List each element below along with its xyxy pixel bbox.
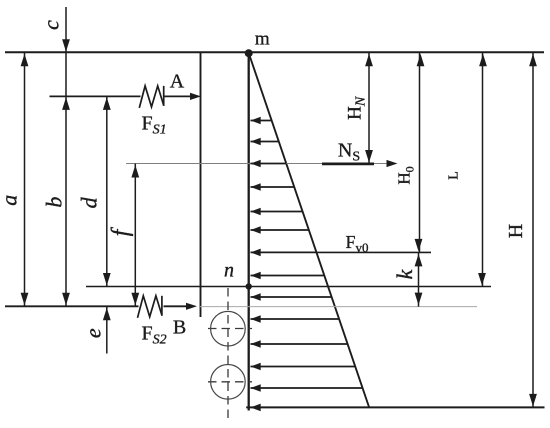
dimension H line xyxy=(529,52,537,407)
N_S label xyxy=(338,140,360,165)
anchor 1 cross dashed line xyxy=(208,328,252,330)
load arrow q6 xyxy=(251,226,309,234)
N_S force bar xyxy=(322,162,374,165)
node m label xyxy=(255,28,270,49)
dimension L line xyxy=(478,52,487,286)
svg-text:c: c xyxy=(39,20,64,30)
spring F_S1 symbol xyxy=(139,86,163,108)
load arrow q12 xyxy=(251,363,356,371)
dimension a line xyxy=(21,52,29,306)
label f xyxy=(108,226,134,236)
label c xyxy=(39,20,64,30)
label a xyxy=(0,195,22,206)
label F_S2 xyxy=(141,323,166,348)
label H_N xyxy=(345,96,369,120)
label b xyxy=(42,197,67,208)
label H xyxy=(505,224,527,238)
svg-text:H: H xyxy=(505,224,527,238)
N_S action line xyxy=(126,163,394,165)
svg-text:B: B xyxy=(173,317,186,339)
dimension d line xyxy=(103,96,111,286)
N_S arrow right xyxy=(387,160,398,167)
load arrow q1 xyxy=(251,117,272,125)
F_v0 line xyxy=(317,251,432,253)
dimension k line xyxy=(415,252,423,306)
load arrow q5 xyxy=(251,208,303,216)
pile vertical line m-n xyxy=(248,52,250,410)
load arrow q2 xyxy=(251,138,279,146)
dimension c line xyxy=(62,7,70,52)
anchor 1 circle xyxy=(211,311,246,346)
svg-text:A: A xyxy=(170,71,185,93)
node n label xyxy=(224,260,234,282)
label B xyxy=(173,317,186,339)
load arrow q13 xyxy=(251,384,363,392)
dimension e line xyxy=(103,306,111,353)
load arrow q11 xyxy=(251,340,348,348)
dimension b line xyxy=(62,52,70,306)
dimension H_N line xyxy=(365,52,373,163)
dimension H_0 line xyxy=(415,52,425,252)
label e xyxy=(81,328,106,338)
anchor 2 circle xyxy=(211,365,246,400)
svg-text:m: m xyxy=(255,28,270,49)
top ground line xyxy=(5,51,544,53)
anchor axis dashed line xyxy=(227,288,229,421)
label d xyxy=(77,196,102,208)
wall vertical line xyxy=(200,52,202,317)
svg-text:e: e xyxy=(81,328,106,338)
label k xyxy=(392,268,417,279)
load arrow q8 xyxy=(251,272,325,280)
node n dot xyxy=(246,283,252,289)
svg-text:a: a xyxy=(0,195,22,206)
load arrow q10 xyxy=(251,315,340,323)
svg-text:L: L xyxy=(447,171,462,180)
svg-text:d: d xyxy=(77,196,102,208)
load arrow q9 xyxy=(251,293,332,301)
bottom ground line with load arrow xyxy=(246,404,544,412)
label F_S1 xyxy=(141,113,166,138)
spring F_S2 symbol xyxy=(138,296,162,318)
F_S2 spring line xyxy=(5,305,189,307)
n level line xyxy=(86,286,491,288)
node m dot xyxy=(245,49,253,57)
label A xyxy=(170,71,185,93)
dimension f line xyxy=(131,164,139,307)
svg-text:k: k xyxy=(392,268,417,279)
F_v0 label xyxy=(345,232,368,255)
pressure envelope hypotenuse xyxy=(249,53,369,407)
F_S1 spring line xyxy=(50,95,192,97)
arrow B xyxy=(186,303,197,310)
H_0 label xyxy=(395,166,417,184)
svg-text:n: n xyxy=(224,260,234,282)
anchor 2 cross dashed line xyxy=(208,381,252,383)
load arrow q3 xyxy=(251,160,287,168)
svg-text:b: b xyxy=(42,197,67,208)
arrow A xyxy=(190,93,201,100)
label L xyxy=(447,171,462,180)
load arrow q7 xyxy=(251,249,317,257)
thin gray line at B level xyxy=(200,306,477,308)
load arrow q4 xyxy=(251,183,295,191)
